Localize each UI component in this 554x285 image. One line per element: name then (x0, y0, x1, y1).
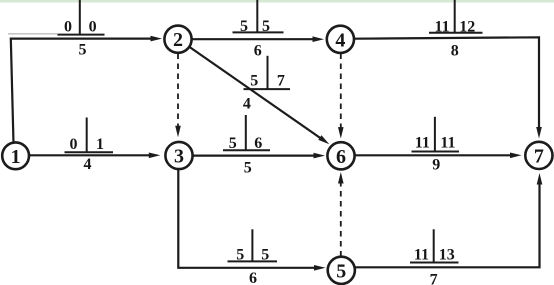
svg-text:11: 11 (414, 247, 429, 264)
svg-text:4: 4 (243, 95, 251, 112)
svg-text:6: 6 (254, 135, 262, 152)
svg-text:7: 7 (430, 272, 438, 285)
svg-text:6: 6 (336, 146, 346, 168)
svg-text:6: 6 (249, 270, 257, 285)
svg-text:0: 0 (89, 18, 97, 35)
svg-text:13: 13 (439, 247, 455, 264)
svg-text:12: 12 (459, 19, 475, 36)
svg-text:5: 5 (250, 73, 258, 90)
svg-text:11: 11 (440, 135, 455, 152)
svg-text:7: 7 (277, 73, 285, 90)
svg-text:1: 1 (11, 146, 21, 168)
svg-text:11: 11 (435, 19, 450, 36)
svg-text:5: 5 (261, 247, 269, 264)
svg-text:5: 5 (244, 159, 252, 176)
svg-text:5: 5 (79, 42, 87, 59)
svg-text:4: 4 (335, 29, 345, 51)
svg-text:7: 7 (534, 145, 544, 167)
svg-text:0: 0 (64, 18, 72, 35)
svg-text:5: 5 (262, 18, 270, 35)
svg-text:0: 0 (70, 136, 78, 153)
svg-text:4: 4 (84, 156, 92, 173)
svg-text:11: 11 (415, 135, 430, 152)
svg-text:5: 5 (336, 260, 346, 282)
svg-text:5: 5 (229, 135, 237, 152)
svg-text:1: 1 (96, 136, 104, 153)
svg-text:5: 5 (236, 247, 244, 264)
svg-text:6: 6 (254, 43, 262, 60)
svg-text:2: 2 (173, 29, 183, 51)
svg-text:9: 9 (432, 157, 440, 174)
svg-text:5: 5 (240, 18, 248, 35)
svg-text:8: 8 (451, 42, 459, 59)
svg-text:3: 3 (174, 146, 184, 168)
